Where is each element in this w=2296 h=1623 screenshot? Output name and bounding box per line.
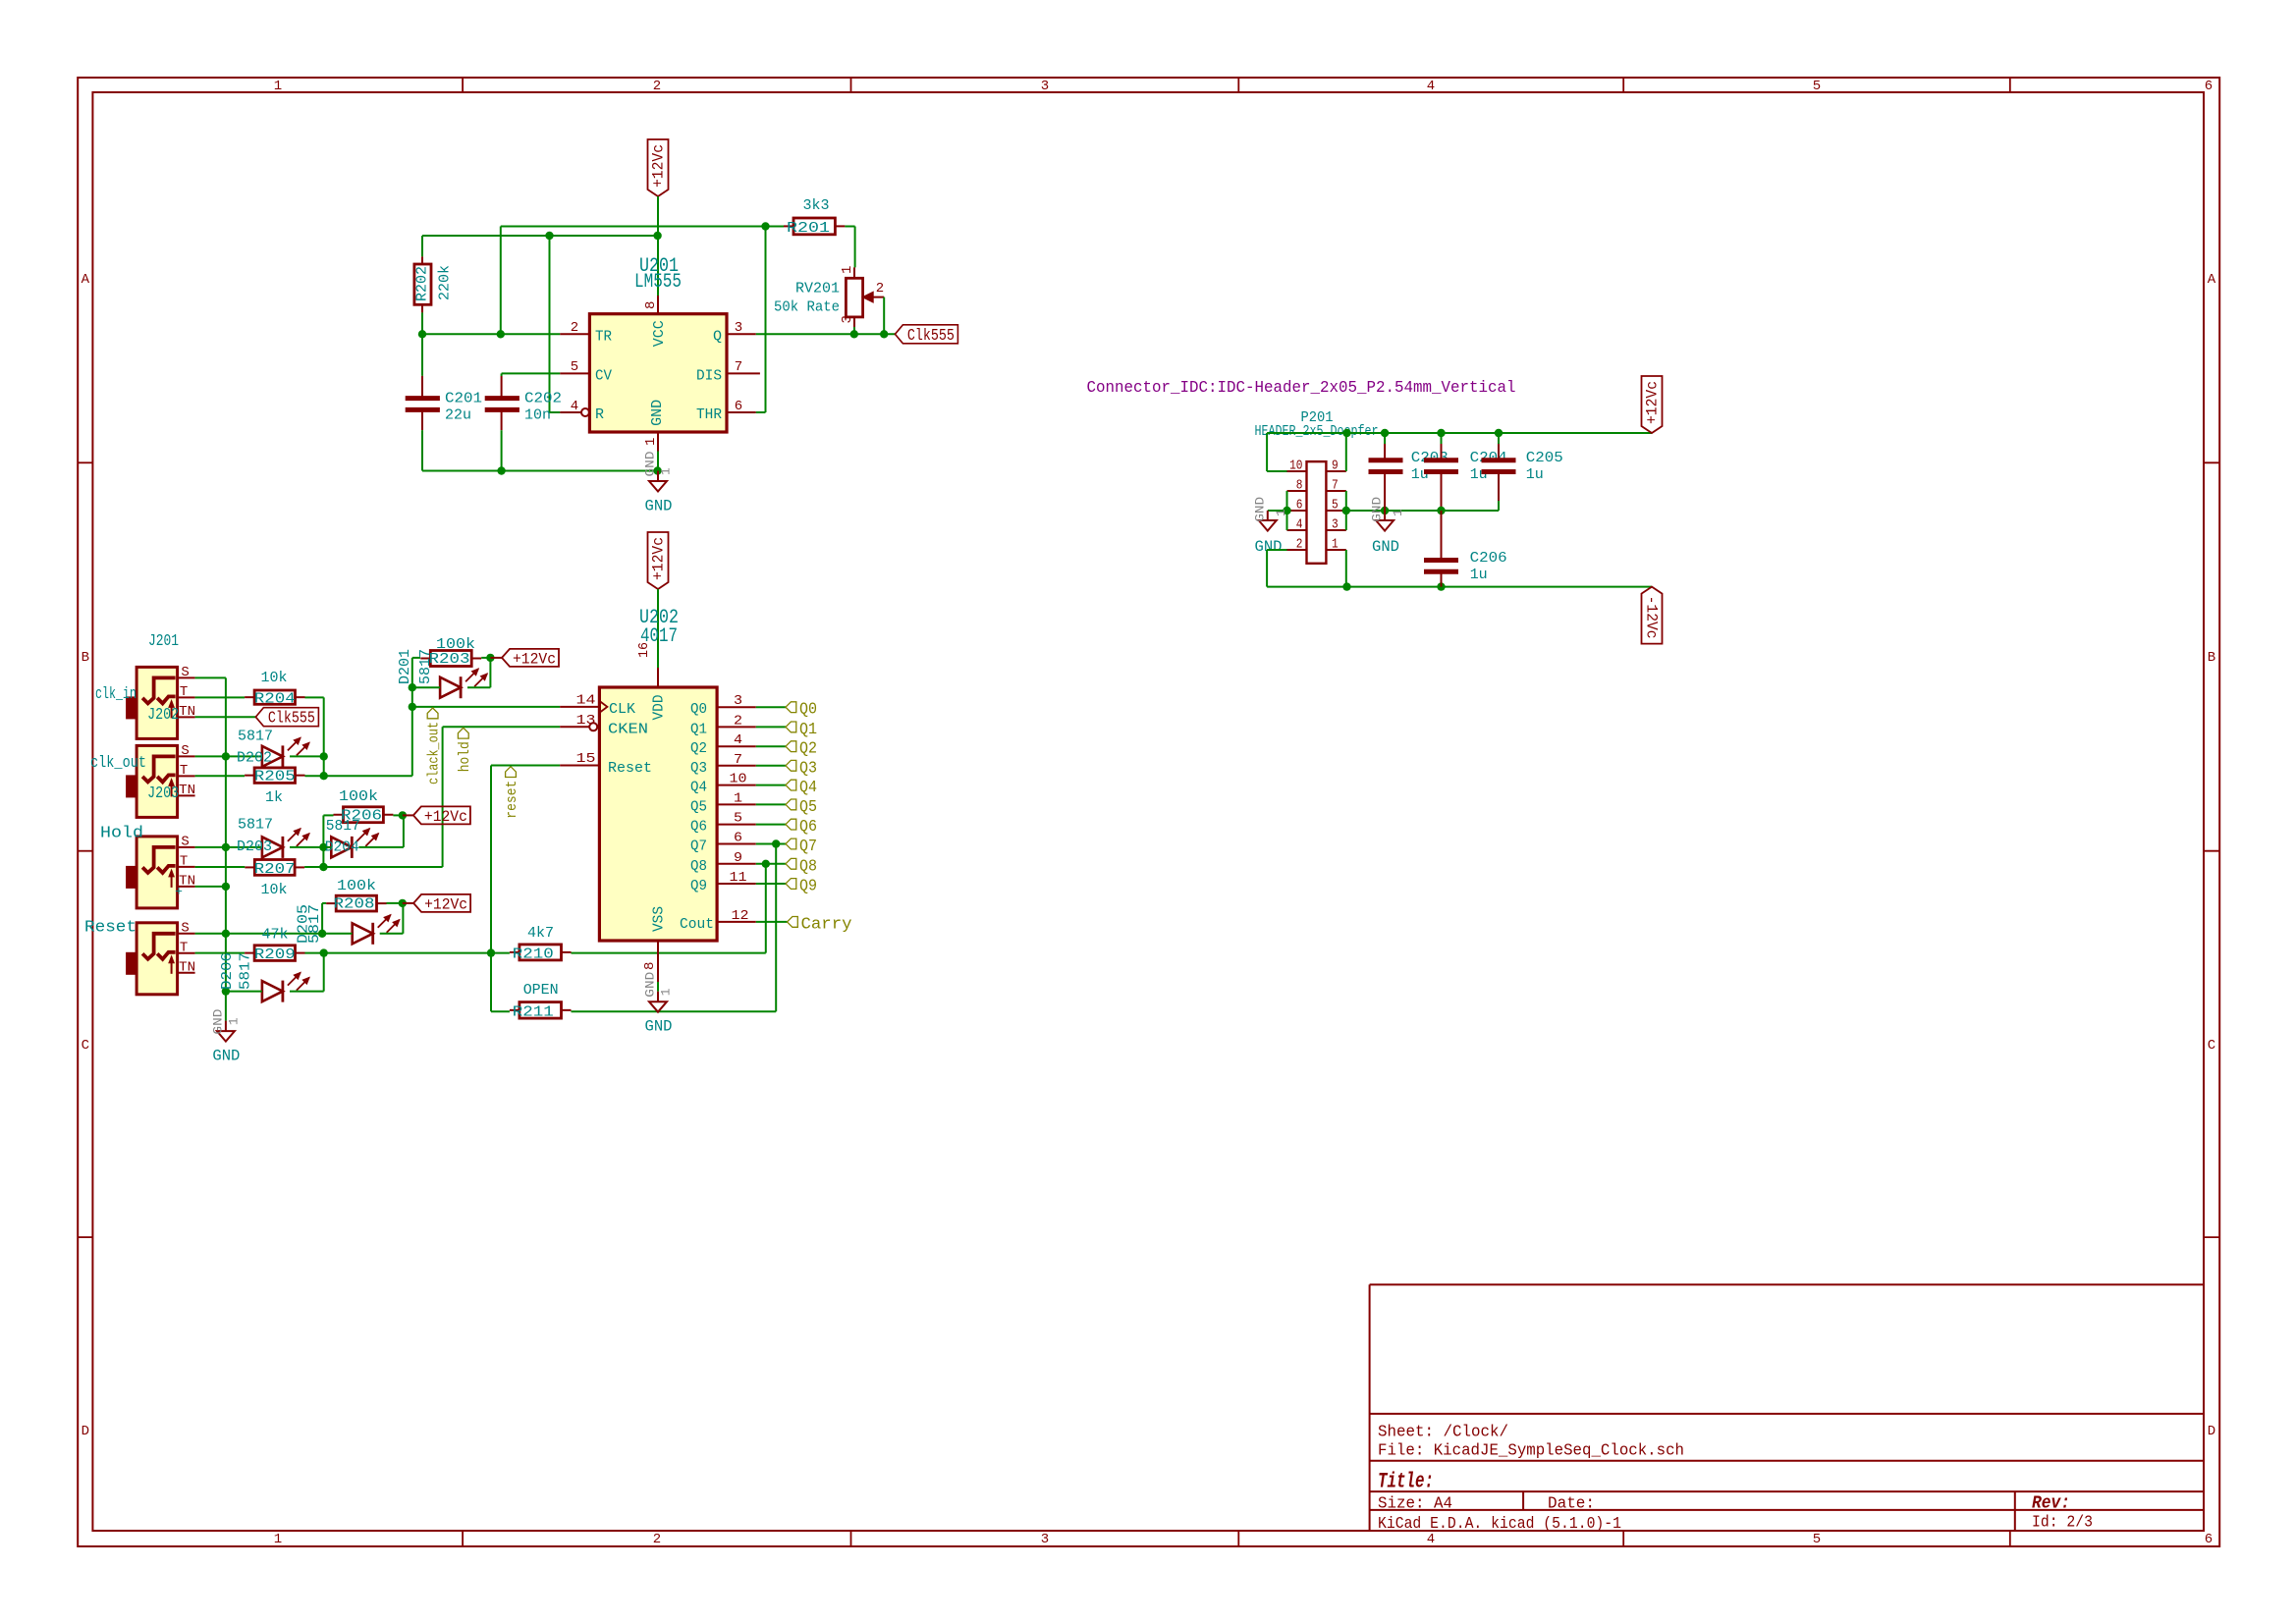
wire A drop to TR bbox=[500, 227, 502, 335]
junction D206 riser bbox=[320, 948, 328, 956]
svg-text:1: 1 bbox=[274, 79, 282, 94]
svg-text:-12Vc: -12Vc bbox=[1643, 596, 1661, 639]
wire J202 T to R204 bbox=[195, 696, 245, 698]
svg-text:T: T bbox=[180, 853, 188, 869]
svg-text:Id: 2/3: Id: 2/3 bbox=[2032, 1513, 2093, 1532]
power symbol GND #2 (GND) bbox=[210, 1008, 241, 1064]
svg-text:4k7: 4k7 bbox=[527, 925, 554, 942]
wire pin1 drop bbox=[1345, 550, 1347, 587]
wire J202 S to ground bus bbox=[195, 676, 226, 678]
wire R210 left bbox=[491, 952, 510, 954]
wire D203 cathode bbox=[290, 846, 323, 848]
svg-text:+12Vc: +12Vc bbox=[424, 808, 467, 826]
capacitor C205 bbox=[1482, 450, 1563, 483]
svg-text:1u: 1u bbox=[1470, 466, 1488, 483]
svg-text:CV: CV bbox=[595, 367, 612, 384]
svg-text:2: 2 bbox=[876, 281, 884, 297]
wire RV201 pin2 to Q net bbox=[883, 298, 885, 335]
wire C205 leads bbox=[1498, 444, 1500, 460]
wire Q output bbox=[756, 333, 896, 335]
wire J203 T to R205 bbox=[195, 775, 245, 777]
svg-text:2: 2 bbox=[571, 320, 578, 336]
hierarchical label Q3 bbox=[786, 759, 817, 778]
wire D204 cathode up bbox=[358, 846, 404, 848]
svg-text:T: T bbox=[180, 763, 188, 779]
wire Q7 to label bbox=[756, 843, 786, 845]
svg-text:Q1: Q1 bbox=[799, 721, 817, 739]
junction Q/RV201.2 bbox=[880, 330, 888, 338]
connector J203 (jack) bbox=[126, 743, 195, 818]
svg-text:5817: 5817 bbox=[417, 649, 434, 684]
wire TR line bbox=[422, 333, 560, 335]
pin 9 of P201 bbox=[1326, 459, 1345, 474]
junction node X2 on S line bbox=[319, 843, 327, 851]
svg-text:1: 1 bbox=[1332, 537, 1339, 553]
svg-text:Q3: Q3 bbox=[690, 760, 707, 777]
svg-text:A: A bbox=[82, 272, 90, 288]
power symbol +12Vc #1 bbox=[648, 139, 669, 196]
wire left pins 8-6-4 bus bbox=[1286, 491, 1288, 530]
wire pin1 down bbox=[657, 452, 659, 471]
capacitor C206 bbox=[1424, 550, 1507, 583]
svg-text:16: 16 bbox=[636, 642, 652, 658]
connector J205 (jack) bbox=[126, 920, 195, 995]
junction TR/wireA bbox=[497, 330, 505, 338]
svg-text:GND: GND bbox=[1252, 497, 1267, 522]
junction C203 top bbox=[1381, 429, 1389, 437]
wire CLK net bbox=[412, 706, 560, 708]
svg-text:C: C bbox=[82, 1038, 89, 1054]
wire reset S line bbox=[195, 933, 226, 935]
capacitor C203 bbox=[1369, 450, 1449, 483]
svg-text:Hold: Hold bbox=[100, 825, 143, 843]
wire D205 anode line bbox=[226, 933, 353, 935]
junction pin1/gnd rail bbox=[653, 466, 661, 474]
svg-text:S: S bbox=[181, 920, 189, 936]
wire CKEN net bbox=[443, 726, 561, 728]
wire R203 right to +12V bbox=[481, 657, 490, 659]
pin 10 of P201 bbox=[1287, 459, 1307, 474]
svg-text:4: 4 bbox=[1296, 517, 1303, 533]
svg-text:Reset: Reset bbox=[84, 919, 137, 938]
wire R208 left bbox=[322, 902, 326, 904]
wire reset node to pin15 bbox=[490, 766, 492, 953]
wire R207 right bbox=[304, 866, 323, 868]
svg-text:GND: GND bbox=[649, 400, 666, 426]
resistor R202 bbox=[414, 256, 454, 312]
wire R206 right to +12V bbox=[393, 814, 403, 816]
power symbol +12Vc #2 bbox=[648, 532, 669, 589]
svg-text:RV201: RV201 bbox=[795, 281, 840, 298]
svg-text:1: 1 bbox=[274, 1532, 282, 1547]
junction pin9 riser bbox=[1342, 429, 1350, 437]
svg-text:D203: D203 bbox=[237, 839, 272, 855]
svg-text:TN: TN bbox=[179, 959, 195, 975]
svg-text:VSS: VSS bbox=[651, 906, 668, 932]
svg-text:Cout: Cout bbox=[680, 916, 714, 933]
wire Q8 to label bbox=[756, 863, 786, 865]
svg-text:3: 3 bbox=[1041, 1532, 1049, 1547]
wire gnd bus tail bbox=[225, 992, 227, 1021]
svg-text:A: A bbox=[2208, 272, 2216, 288]
wire R202 bottom to TR line bbox=[421, 312, 423, 334]
pin 11 Q9 of U202 bbox=[690, 870, 756, 894]
junction R208/+12V/D205 bbox=[399, 899, 407, 907]
svg-text:1u: 1u bbox=[1526, 466, 1544, 483]
svg-text:10k: 10k bbox=[261, 882, 288, 898]
power symbol +12Vc #4 bbox=[413, 806, 470, 826]
wire D204 anode bbox=[323, 846, 331, 848]
svg-text:Connector_IDC:IDC-Header_2x05_: Connector_IDC:IDC-Header_2x05_P2.54mm_Ve… bbox=[1087, 379, 1516, 398]
wire Q6 to label bbox=[756, 824, 786, 826]
svg-text:1: 1 bbox=[1274, 509, 1288, 516]
power symbol +12Vc #6 bbox=[1642, 376, 1663, 433]
svg-text:3k3: 3k3 bbox=[803, 197, 830, 214]
resistor R211 bbox=[510, 982, 572, 1021]
diode D206 bbox=[262, 973, 309, 1002]
svg-text:T: T bbox=[180, 940, 188, 955]
svg-text:R201: R201 bbox=[787, 220, 830, 237]
wire D206 cathode bbox=[290, 991, 324, 993]
svg-text:7: 7 bbox=[734, 752, 742, 768]
svg-text:+12Vc: +12Vc bbox=[513, 650, 556, 668]
wire Q0 to label bbox=[756, 706, 786, 708]
power symbol GND (P201 right) bbox=[1370, 497, 1405, 556]
svg-text:GND: GND bbox=[645, 498, 673, 515]
hierarchical label clack_out bbox=[427, 708, 443, 784]
svg-text:5817: 5817 bbox=[238, 729, 273, 745]
svg-text:2: 2 bbox=[653, 79, 661, 94]
wire Q5 to label bbox=[756, 803, 786, 805]
pin 6 of P201 bbox=[1287, 498, 1307, 514]
junction Q7 bbox=[772, 839, 780, 847]
svg-text:1: 1 bbox=[226, 1017, 241, 1025]
junction C205 top bbox=[1495, 429, 1503, 437]
svg-text:1u: 1u bbox=[1411, 466, 1429, 483]
svg-text:220k: 220k bbox=[437, 265, 454, 300]
IC U202 4017 bbox=[560, 607, 717, 982]
svg-text:R207: R207 bbox=[254, 861, 296, 878]
svg-text:Sheet: /Clock/: Sheet: /Clock/ bbox=[1378, 1424, 1508, 1442]
svg-text:Q9: Q9 bbox=[690, 878, 707, 894]
svg-text:R202: R202 bbox=[414, 266, 431, 301]
svg-text:Q2: Q2 bbox=[799, 740, 817, 759]
power symbol GND #1 (GND) bbox=[643, 451, 674, 514]
svg-text:Q3: Q3 bbox=[799, 759, 817, 778]
diode D205 bbox=[353, 915, 400, 945]
resistor R201 bbox=[784, 197, 845, 237]
svg-text:Q4: Q4 bbox=[690, 780, 707, 796]
svg-text:5817: 5817 bbox=[326, 818, 360, 835]
svg-text:4: 4 bbox=[571, 399, 578, 414]
svg-text:8: 8 bbox=[642, 962, 658, 970]
power symbol +12Vc #5 bbox=[413, 894, 470, 914]
wire -12V bottom rail bbox=[1267, 586, 1652, 588]
svg-text:C: C bbox=[2208, 1038, 2215, 1054]
hierarchical label Q2 bbox=[786, 740, 817, 759]
svg-text:1: 1 bbox=[659, 467, 674, 475]
diode D203 bbox=[262, 829, 309, 858]
svg-text:Carry: Carry bbox=[801, 915, 852, 934]
power symbol GND (P201 left) bbox=[1252, 497, 1288, 556]
svg-text:S: S bbox=[181, 834, 189, 849]
junction gnd bus / D206 bbox=[222, 987, 230, 995]
pin 3 of P201 bbox=[1326, 517, 1345, 533]
wire +12V to U202 pin16 bbox=[657, 589, 659, 668]
diode D202 bbox=[262, 737, 309, 767]
wire R203 left bbox=[412, 657, 420, 659]
junction R208 drop on S line bbox=[318, 930, 326, 938]
junction gnd bus / hold S bbox=[222, 843, 230, 851]
svg-text:Q1: Q1 bbox=[690, 721, 707, 737]
wire junction A to R201 bbox=[766, 226, 785, 228]
svg-text:Q8: Q8 bbox=[799, 857, 817, 876]
junction Q8 bbox=[762, 860, 770, 868]
svg-text:4: 4 bbox=[1427, 79, 1435, 94]
svg-text:10: 10 bbox=[1289, 459, 1302, 474]
junction C202/gnd rail bbox=[497, 466, 505, 474]
pin 7 Q3 of U202 bbox=[690, 752, 756, 777]
svg-text:GND: GND bbox=[643, 971, 658, 997]
svg-text:10k: 10k bbox=[261, 670, 288, 686]
svg-text:DIS: DIS bbox=[696, 367, 722, 384]
wire R208 right to +12V bbox=[387, 902, 403, 904]
svg-text:5817: 5817 bbox=[238, 952, 254, 990]
svg-text:S: S bbox=[181, 665, 189, 680]
svg-text:2: 2 bbox=[1296, 537, 1303, 553]
svg-text:LM555: LM555 bbox=[634, 271, 682, 294]
svg-text:S: S bbox=[181, 743, 189, 759]
wire C206 leads bbox=[1441, 511, 1443, 560]
svg-text:Q7: Q7 bbox=[690, 839, 707, 855]
svg-text:22u: 22u bbox=[445, 407, 471, 424]
diode D204 bbox=[331, 829, 378, 858]
wire hold T to R207 bbox=[195, 866, 246, 868]
svg-text:TN: TN bbox=[179, 783, 195, 798]
svg-text:9: 9 bbox=[1332, 459, 1339, 474]
svg-text:Q6: Q6 bbox=[799, 818, 817, 837]
wire R202 top to rail B bbox=[421, 236, 423, 256]
svg-text:clk_out: clk_out bbox=[90, 754, 146, 773]
wire VSS to gnd bbox=[657, 982, 659, 992]
hierarchical label Q1 bbox=[786, 721, 817, 739]
svg-text:5: 5 bbox=[571, 359, 578, 375]
power symbol GND #3 (GND) bbox=[643, 971, 674, 1035]
svg-text:Q2: Q2 bbox=[690, 740, 707, 757]
wire C201 top bbox=[421, 334, 423, 375]
junction R203/+12V/D201 bbox=[486, 654, 494, 662]
junction pin1 drop bbox=[1342, 582, 1350, 590]
wire pin6 to GND bbox=[1268, 510, 1287, 512]
IC U201 LM555 bbox=[560, 255, 760, 452]
svg-text:Q5: Q5 bbox=[690, 798, 707, 815]
wire RV201 pin3 to Q net bbox=[853, 327, 855, 334]
wire D202 cathode bbox=[290, 755, 324, 757]
wire right pins 7-5-3 bus bbox=[1345, 491, 1347, 530]
resistor R209 bbox=[245, 927, 304, 963]
wire +12V rail B bbox=[422, 235, 658, 237]
hierarchical label Q6 bbox=[786, 818, 817, 837]
svg-text:1: 1 bbox=[643, 438, 659, 446]
power symbol -12Vc bbox=[1642, 587, 1663, 644]
svg-text:100k: 100k bbox=[339, 788, 378, 805]
resistor R205 bbox=[245, 768, 304, 806]
svg-text:D202: D202 bbox=[237, 750, 272, 767]
wire R204 drop bbox=[323, 697, 325, 776]
connector J202 (jack) bbox=[126, 665, 195, 739]
svg-text:5: 5 bbox=[734, 811, 742, 827]
capacitor C204 bbox=[1424, 450, 1507, 483]
svg-text:GND: GND bbox=[645, 1018, 673, 1036]
junction C203 bottom / GND bbox=[1381, 507, 1389, 514]
svg-text:13: 13 bbox=[576, 713, 596, 729]
wire CKEN drop to hold T line bbox=[442, 727, 444, 867]
svg-text:VCC: VCC bbox=[651, 320, 668, 347]
wire C201 bottom bbox=[421, 430, 423, 470]
svg-text:R: R bbox=[595, 406, 604, 423]
wire Q2 to label bbox=[756, 745, 786, 747]
svg-text:5817: 5817 bbox=[238, 817, 273, 834]
svg-text:R205: R205 bbox=[254, 769, 296, 785]
svg-text:1u: 1u bbox=[1470, 567, 1488, 583]
wire Cout to Carry bbox=[756, 921, 788, 923]
pin 1 Q5 of U202 bbox=[690, 790, 756, 815]
svg-text:8: 8 bbox=[1296, 478, 1303, 494]
wire Q9 to label bbox=[756, 883, 786, 885]
svg-text:J202: J202 bbox=[147, 706, 179, 725]
wire CV to C202 bbox=[502, 372, 561, 374]
junction R205 line bbox=[320, 772, 328, 780]
svg-text:6: 6 bbox=[2205, 79, 2213, 94]
junction B at reset branch bbox=[545, 232, 553, 240]
wire pin9 riser bbox=[1345, 433, 1347, 471]
svg-text:C206: C206 bbox=[1470, 550, 1507, 567]
wire hold TN line bbox=[195, 886, 226, 888]
svg-text:3: 3 bbox=[1332, 517, 1339, 533]
pin 5 of P201 bbox=[1326, 498, 1345, 514]
junction X1 D201 bbox=[409, 683, 416, 691]
junction pin5 bbox=[1342, 507, 1350, 514]
svg-text:Title:: Title: bbox=[1378, 1470, 1434, 1494]
junction gnd bus / hold TN bbox=[222, 883, 230, 891]
wire R205 right bbox=[305, 775, 412, 777]
wire ground rail under 555 bbox=[422, 470, 658, 472]
junction X1 CLK bbox=[409, 703, 416, 711]
svg-text:Size: A4: Size: A4 bbox=[1378, 1494, 1452, 1513]
svg-text:GND: GND bbox=[1372, 538, 1399, 556]
pin 4 of P201 bbox=[1287, 517, 1307, 533]
wire Q4 to label bbox=[756, 784, 786, 786]
wire Q7 to R211 bbox=[775, 844, 777, 1012]
svg-text:Q: Q bbox=[713, 328, 722, 345]
wire hold S line bbox=[195, 846, 262, 848]
pin 9 Q8 of U202 bbox=[690, 850, 756, 875]
wire pin10 loop to +12V rail bbox=[1267, 470, 1286, 472]
svg-text:J201: J201 bbox=[148, 632, 179, 651]
diode D201 bbox=[440, 669, 487, 698]
svg-text:HEADER_2x5_Doepfer: HEADER_2x5_Doepfer bbox=[1255, 423, 1379, 440]
wire C205 top bbox=[1498, 433, 1500, 444]
svg-text:12: 12 bbox=[732, 908, 749, 924]
svg-text:T: T bbox=[180, 684, 188, 700]
svg-text:clk_in: clk_in bbox=[95, 685, 137, 704]
wire C204 top bbox=[1441, 433, 1443, 444]
svg-text:47k: 47k bbox=[262, 927, 289, 944]
capacitor C201 bbox=[406, 376, 482, 431]
svg-text:CLK: CLK bbox=[609, 701, 635, 718]
svg-text:10n: 10n bbox=[524, 407, 551, 424]
svg-text:6: 6 bbox=[2205, 1532, 2213, 1547]
svg-text:Clk555: Clk555 bbox=[907, 327, 955, 346]
svg-text:1: 1 bbox=[659, 988, 674, 996]
wire R201 right to RV201 bbox=[845, 226, 854, 228]
svg-text:7: 7 bbox=[735, 359, 742, 375]
svg-text:2: 2 bbox=[653, 1532, 661, 1547]
svg-text:+12Vc: +12Vc bbox=[650, 537, 668, 580]
svg-text:5: 5 bbox=[1813, 79, 1821, 94]
junction gnd bus / reset S bbox=[222, 930, 230, 938]
junction X2 on T line bbox=[319, 863, 327, 871]
wire R210 right bbox=[572, 952, 766, 954]
wire C203 top bbox=[1384, 433, 1386, 444]
wire R209 right bbox=[305, 952, 492, 954]
svg-text:THR: THR bbox=[696, 406, 722, 423]
resistor R206 bbox=[334, 807, 394, 825]
hierarchical label Carry bbox=[788, 915, 852, 934]
wire Q8 to R210 bbox=[765, 864, 767, 953]
svg-text:6: 6 bbox=[734, 831, 742, 846]
wire D205 cathode up bbox=[380, 933, 404, 935]
svg-text:D: D bbox=[82, 1424, 89, 1439]
hierarchical label reset bbox=[505, 767, 520, 819]
svg-text:Date:: Date: bbox=[1548, 1494, 1595, 1513]
junction C206 bottom bbox=[1437, 582, 1445, 590]
wire node down to R211 bbox=[490, 953, 492, 1012]
pin 6 Q7 of U202 bbox=[690, 831, 756, 855]
svg-text:8: 8 bbox=[643, 301, 659, 309]
wire D201 cathode up bbox=[467, 686, 490, 688]
svg-text:Q9: Q9 bbox=[799, 878, 817, 896]
svg-text:B: B bbox=[2208, 650, 2215, 666]
svg-text:5: 5 bbox=[1813, 1532, 1821, 1547]
wire THR branch bbox=[765, 227, 767, 413]
svg-text:Q0: Q0 bbox=[690, 701, 707, 718]
junction at wire A right bbox=[761, 222, 769, 230]
junction C204 bottom / C206 top bbox=[1437, 507, 1445, 514]
svg-text:Reset: Reset bbox=[608, 760, 652, 777]
svg-text:6: 6 bbox=[735, 399, 742, 414]
svg-text:D206: D206 bbox=[219, 952, 236, 990]
svg-text:1k: 1k bbox=[265, 789, 283, 806]
potentiometer RV201 bbox=[774, 266, 884, 327]
hierarchical label Q0 bbox=[786, 701, 817, 720]
svg-text:GND: GND bbox=[1255, 538, 1283, 556]
pin 4 Q2 of U202 bbox=[690, 732, 756, 757]
junction TR/R202/C201 bbox=[418, 330, 426, 338]
title block bbox=[1370, 1284, 2204, 1534]
hierarchical label Q8 bbox=[786, 857, 817, 876]
global label Clk555 bbox=[255, 708, 318, 729]
capacitor C202 bbox=[485, 376, 562, 430]
svg-text:4: 4 bbox=[1427, 1532, 1435, 1547]
svg-text:Q6: Q6 bbox=[690, 819, 707, 836]
junction pin6 bbox=[1283, 507, 1290, 514]
junction gnd bus / J203 S bbox=[222, 752, 230, 760]
pin 2 of P201 bbox=[1287, 537, 1307, 553]
svg-text:C205: C205 bbox=[1526, 450, 1563, 466]
hierarchical label Q7 bbox=[786, 838, 817, 856]
svg-text:100k: 100k bbox=[436, 636, 475, 653]
